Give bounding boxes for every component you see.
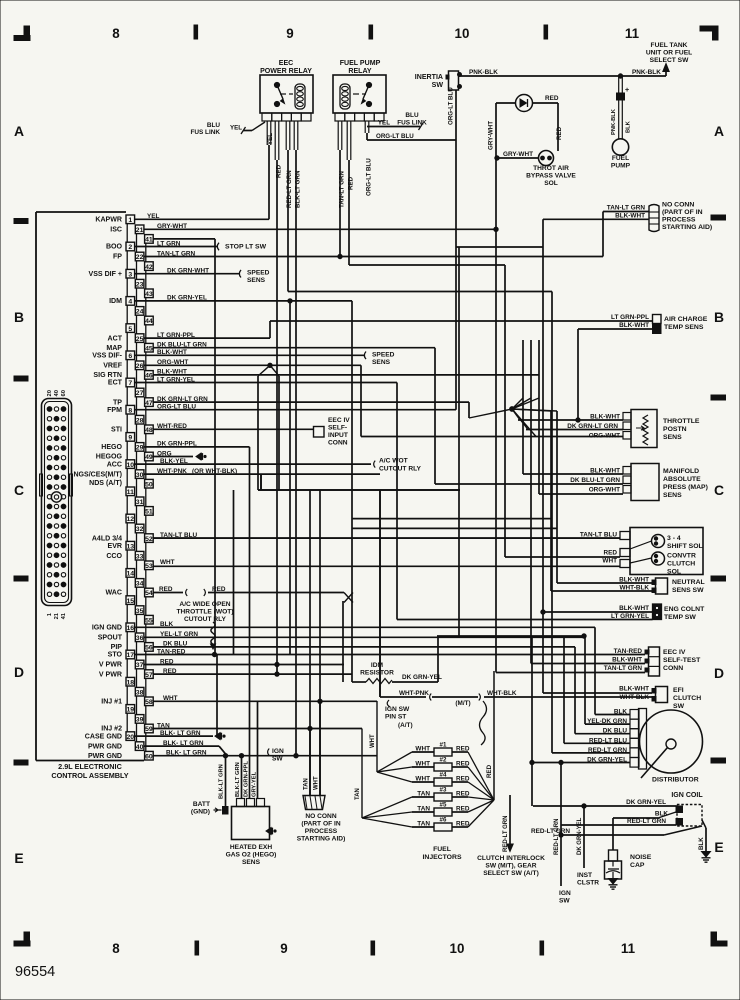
svg-text:WHT: WHT	[160, 559, 175, 566]
svg-text:SW (M/T), GEAR: SW (M/T), GEAR	[485, 863, 536, 870]
svg-text:WHT: WHT	[602, 558, 617, 565]
svg-text:SELECT SW: SELECT SW	[650, 57, 689, 64]
svg-text:C: C	[14, 482, 24, 498]
svg-text:PIP: PIP	[111, 644, 123, 651]
svg-text:FP: FP	[113, 254, 122, 261]
svg-text:THROTTLE (WOT): THROTTLE (WOT)	[176, 609, 233, 616]
svg-text:RELAY: RELAY	[348, 68, 372, 75]
svg-text:28: 28	[136, 417, 144, 424]
svg-text:BLU: BLU	[405, 112, 419, 119]
svg-text:NO CONN: NO CONN	[305, 813, 337, 820]
svg-text:TAN: TAN	[304, 778, 310, 790]
svg-text:9: 9	[286, 26, 293, 41]
svg-text:CUTOUT RLY: CUTOUT RLY	[379, 466, 422, 473]
svg-text:STI: STI	[111, 427, 122, 434]
svg-text:58: 58	[145, 699, 153, 706]
svg-text:EEC IV: EEC IV	[328, 417, 350, 424]
svg-text:FUEL TANK: FUEL TANK	[651, 42, 688, 49]
svg-text:RED-LT GRN: RED-LT GRN	[554, 819, 560, 855]
svg-text:32: 32	[136, 526, 144, 533]
svg-text:YEL: YEL	[230, 125, 242, 132]
svg-text:49: 49	[145, 454, 153, 461]
svg-text:SPEED: SPEED	[372, 351, 395, 358]
svg-text:57: 57	[145, 672, 153, 679]
svg-text:16: 16	[126, 625, 134, 632]
svg-text:4: 4	[128, 299, 132, 306]
svg-text:LT GRN-PPL: LT GRN-PPL	[611, 314, 649, 321]
svg-text:#5: #5	[440, 802, 447, 809]
svg-text:FUEL: FUEL	[612, 155, 629, 162]
svg-text:FUS LINK: FUS LINK	[397, 120, 427, 127]
svg-text:53: 53	[145, 563, 153, 570]
svg-text:STO: STO	[108, 652, 123, 659]
svg-text:CCO: CCO	[106, 553, 122, 560]
svg-text:(PART OF IN: (PART OF IN	[301, 821, 340, 828]
svg-text:9: 9	[280, 941, 287, 956]
svg-text:TAN-LT GRN: TAN-LT GRN	[604, 665, 643, 672]
svg-text:31: 31	[136, 499, 144, 506]
svg-text:RED-LT GRN: RED-LT GRN	[531, 828, 570, 835]
svg-text:27: 27	[136, 390, 144, 397]
svg-text:ISC: ISC	[110, 227, 122, 234]
svg-text:14: 14	[126, 571, 134, 578]
svg-text:RED: RED	[545, 95, 559, 102]
svg-text:THROTTLE: THROTTLE	[663, 418, 700, 425]
svg-text:21: 21	[54, 612, 60, 619]
svg-text:DISTRIBUTOR: DISTRIBUTOR	[652, 777, 699, 784]
svg-text:SPEED: SPEED	[247, 270, 270, 277]
svg-text:RED: RED	[556, 126, 563, 140]
svg-text:IGN GND: IGN GND	[92, 625, 122, 632]
svg-text:11: 11	[625, 26, 640, 41]
svg-text:26: 26	[136, 363, 144, 370]
svg-text:BLK-WHT: BLK-WHT	[619, 605, 649, 612]
svg-text:#2: #2	[440, 757, 447, 764]
svg-text:1: 1	[128, 217, 132, 224]
svg-text:SIG RTN: SIG RTN	[93, 372, 122, 379]
svg-text:EEC IV: EEC IV	[663, 649, 686, 656]
svg-text:INPUT: INPUT	[328, 432, 348, 439]
svg-text:60: 60	[145, 753, 153, 760]
svg-text:TP: TP	[113, 399, 122, 406]
svg-text:RED: RED	[348, 176, 355, 190]
svg-text:BLK-LT GRN: BLK-LT GRN	[295, 170, 302, 208]
svg-text:47: 47	[145, 400, 153, 407]
svg-text:15: 15	[126, 598, 134, 605]
svg-text:RED-LT GRN: RED-LT GRN	[286, 170, 293, 208]
svg-text:GAS O2 (HEGO): GAS O2 (HEGO)	[226, 852, 277, 859]
svg-text:IGN COIL: IGN COIL	[671, 792, 703, 799]
svg-text:40: 40	[54, 390, 60, 396]
svg-text:56: 56	[145, 645, 153, 652]
svg-text:WHT: WHT	[370, 734, 376, 748]
svg-text:22: 22	[136, 254, 144, 261]
svg-text:#6: #6	[440, 817, 447, 824]
svg-text:2: 2	[128, 244, 132, 251]
svg-text:DK GRN-YEL: DK GRN-YEL	[626, 799, 666, 806]
svg-text:BLU: BLU	[207, 122, 221, 129]
svg-text:11: 11	[621, 941, 636, 956]
svg-text:40: 40	[136, 744, 144, 751]
svg-text:DK BLU-LT GRN: DK BLU-LT GRN	[570, 477, 620, 484]
svg-text:25: 25	[136, 336, 144, 343]
svg-text:CONTROL ASSEMBLY: CONTROL ASSEMBLY	[51, 771, 128, 780]
svg-text:DK GRN-PPL: DK GRN-PPL	[244, 761, 250, 797]
svg-text:ABSOLUTE: ABSOLUTE	[663, 476, 701, 483]
svg-text:SW: SW	[673, 703, 685, 710]
svg-text:RED: RED	[486, 764, 493, 778]
svg-text:CLUTCH: CLUTCH	[673, 695, 701, 702]
svg-text:SOL: SOL	[544, 180, 558, 187]
svg-text:STARTING AID): STARTING AID)	[662, 224, 712, 231]
svg-text:STARTING AID): STARTING AID)	[297, 836, 346, 843]
svg-text:7: 7	[128, 380, 132, 387]
svg-text:BLK-WHT: BLK-WHT	[619, 322, 649, 329]
svg-text:6: 6	[128, 353, 132, 360]
svg-text:50: 50	[145, 481, 153, 488]
svg-text:SHIFT SOL: SHIFT SOL	[667, 543, 703, 550]
svg-text:WAC: WAC	[106, 590, 122, 597]
svg-text:V PWR: V PWR	[99, 671, 122, 678]
svg-text:NOISE: NOISE	[630, 854, 652, 861]
svg-text:FUEL PUMP: FUEL PUMP	[340, 60, 381, 67]
svg-text:19: 19	[126, 707, 134, 714]
svg-text:41: 41	[61, 612, 67, 619]
svg-text:KAPWR: KAPWR	[95, 217, 122, 224]
svg-text:42: 42	[145, 264, 153, 271]
svg-text:12: 12	[126, 516, 134, 523]
svg-text:SPOUT: SPOUT	[98, 635, 123, 642]
svg-text:PWR GND: PWR GND	[88, 743, 122, 750]
svg-text:5: 5	[128, 326, 132, 333]
svg-text:HEGO: HEGO	[101, 444, 122, 451]
svg-text:POWER RELAY: POWER RELAY	[260, 68, 312, 75]
svg-text:SW: SW	[559, 898, 570, 905]
svg-text:BLK-LT GRN: BLK-LT GRN	[219, 764, 225, 799]
svg-text:ACT: ACT	[108, 335, 123, 342]
svg-text:9: 9	[128, 435, 132, 442]
svg-text:VSS DIF +: VSS DIF +	[89, 271, 122, 278]
svg-text:RED-LT GRN: RED-LT GRN	[627, 818, 666, 825]
svg-text:BLK-WHT: BLK-WHT	[619, 686, 649, 693]
svg-text:96554: 96554	[15, 964, 55, 980]
svg-text:ORG-LT BLU: ORG-LT BLU	[448, 87, 455, 125]
svg-text:ORG-LT BLU: ORG-LT BLU	[376, 133, 414, 140]
svg-text:TEMP SENS: TEMP SENS	[664, 324, 704, 331]
svg-text:PNK-BLK: PNK-BLK	[611, 108, 617, 135]
svg-text:46: 46	[145, 373, 153, 380]
svg-text:PRESS (MAP): PRESS (MAP)	[663, 484, 708, 491]
svg-text:54: 54	[145, 590, 153, 597]
svg-text:10: 10	[455, 26, 470, 41]
svg-text:TAN-LT GRN: TAN-LT GRN	[339, 171, 346, 208]
svg-text:20: 20	[47, 390, 53, 396]
svg-text:21: 21	[136, 227, 144, 234]
svg-text:STOP LT SW: STOP LT SW	[225, 244, 267, 251]
svg-text:THROT AIR: THROT AIR	[533, 165, 569, 172]
svg-text:CAP: CAP	[630, 862, 645, 869]
svg-text:BLK-LT GRN: BLK-LT GRN	[235, 762, 241, 797]
svg-text:DK GRN-YEL: DK GRN-YEL	[577, 817, 583, 855]
svg-text:PNK-BLK: PNK-BLK	[632, 69, 661, 76]
svg-text:VREF: VREF	[103, 363, 122, 370]
svg-text:A: A	[14, 123, 24, 139]
svg-text:NDS (A/T): NDS (A/T)	[89, 480, 122, 487]
svg-text:TAN-LT GRN: TAN-LT GRN	[607, 205, 646, 212]
svg-text:A/C WIDE OPEN: A/C WIDE OPEN	[179, 601, 230, 608]
svg-text:20: 20	[126, 734, 134, 741]
svg-text:E: E	[714, 839, 723, 855]
svg-text:30: 30	[136, 472, 144, 479]
svg-text:PNK-BLK: PNK-BLK	[469, 69, 498, 76]
svg-text:11: 11	[127, 489, 134, 496]
svg-text:HEATED EXH: HEATED EXH	[230, 844, 272, 851]
svg-text:IDM: IDM	[371, 662, 384, 669]
svg-text:A4LD 3/4: A4LD 3/4	[92, 535, 122, 542]
svg-text:WHT-PNK: WHT-PNK	[399, 690, 429, 697]
svg-text:FPM: FPM	[107, 407, 122, 414]
svg-text:WHT: WHT	[314, 776, 320, 790]
svg-text:3 - 4: 3 - 4	[667, 535, 681, 542]
svg-text:2.9L ELECTRONIC: 2.9L ELECTRONIC	[58, 762, 122, 771]
svg-text:B: B	[14, 309, 24, 325]
svg-text:SENS: SENS	[663, 492, 682, 499]
svg-text:(M/T): (M/T)	[455, 700, 470, 707]
svg-text:#1: #1	[440, 742, 447, 749]
svg-text:CUTOUT RLY: CUTOUT RLY	[184, 616, 227, 623]
svg-text:CLUTCH INTERLOCK: CLUTCH INTERLOCK	[477, 855, 545, 862]
svg-text:BLK: BLK	[698, 837, 705, 850]
svg-text:BLK: BLK	[626, 120, 632, 133]
svg-text:MANIFOLD: MANIFOLD	[663, 468, 699, 475]
svg-text:SELF-: SELF-	[328, 425, 347, 432]
svg-text:D: D	[714, 665, 724, 681]
svg-text:UNIT OR FUEL: UNIT OR FUEL	[646, 50, 692, 57]
svg-text:41: 41	[145, 237, 153, 244]
svg-text:RED-LT GRN: RED-LT GRN	[503, 816, 509, 852]
svg-text:NEUTRAL: NEUTRAL	[672, 579, 705, 586]
svg-text:YEL: YEL	[267, 133, 274, 145]
svg-text:8: 8	[112, 26, 120, 41]
svg-text:YEL: YEL	[378, 120, 390, 127]
svg-text:18: 18	[126, 679, 134, 686]
svg-text:E: E	[14, 850, 23, 866]
svg-text:SOL: SOL	[667, 569, 681, 576]
svg-text:INST: INST	[577, 872, 592, 879]
svg-text:IGN SW: IGN SW	[385, 706, 410, 713]
svg-text:TAN: TAN	[355, 788, 361, 800]
svg-text:#3: #3	[440, 787, 447, 794]
svg-text:PIN ST: PIN ST	[385, 714, 406, 721]
svg-text:SENS: SENS	[242, 859, 261, 866]
svg-text:WHT-BLK: WHT-BLK	[487, 690, 517, 697]
svg-text:GRY-YEL: GRY-YEL	[252, 771, 258, 797]
svg-text:ORG-WHT: ORG-WHT	[589, 487, 620, 494]
svg-text:IGN: IGN	[559, 890, 571, 897]
svg-text:SENS: SENS	[663, 434, 682, 441]
svg-text:ACC: ACC	[107, 461, 122, 468]
svg-text:55: 55	[145, 617, 153, 624]
svg-text:35: 35	[136, 608, 144, 615]
svg-text:PWR GND: PWR GND	[88, 753, 122, 760]
svg-text:37: 37	[136, 662, 144, 669]
svg-text:33: 33	[136, 553, 144, 560]
svg-text:TAN-RED: TAN-RED	[157, 648, 186, 655]
svg-text:SENS SW: SENS SW	[672, 587, 704, 594]
svg-text:BATT: BATT	[193, 801, 210, 808]
svg-text:CLSTR: CLSTR	[577, 880, 599, 887]
svg-text:10: 10	[450, 941, 465, 956]
svg-text:GRY-WHT: GRY-WHT	[488, 121, 495, 150]
svg-text:36: 36	[136, 635, 144, 642]
svg-text:17: 17	[126, 652, 134, 659]
svg-text:DK GRN-YEL: DK GRN-YEL	[402, 674, 442, 681]
svg-text:CONN: CONN	[328, 440, 348, 447]
svg-text:34: 34	[136, 581, 144, 588]
svg-text:INJECTORS: INJECTORS	[422, 854, 461, 861]
svg-text:FUEL: FUEL	[433, 846, 451, 853]
svg-text:EEC: EEC	[279, 60, 294, 67]
svg-text:SELF-TEST: SELF-TEST	[663, 657, 701, 664]
svg-text:RED: RED	[276, 164, 283, 178]
svg-text:FUS LINK: FUS LINK	[190, 129, 220, 136]
svg-text:IDM: IDM	[109, 298, 122, 305]
svg-text:RED: RED	[603, 550, 617, 557]
svg-text:ENG COLNT: ENG COLNT	[664, 606, 705, 613]
svg-text:INJ #1: INJ #1	[101, 699, 122, 706]
svg-text:C: C	[714, 482, 724, 498]
svg-text:45: 45	[145, 345, 153, 352]
svg-text:38: 38	[136, 689, 144, 696]
svg-text:A: A	[714, 123, 724, 139]
svg-text:CONN: CONN	[663, 665, 683, 672]
svg-text:13: 13	[126, 543, 134, 550]
svg-text:23: 23	[136, 281, 144, 288]
svg-text:ORG-LT BLU: ORG-LT BLU	[366, 158, 373, 196]
svg-text:INERTIA: INERTIA	[415, 74, 443, 81]
svg-text:60: 60	[61, 390, 67, 396]
svg-text:D: D	[14, 664, 24, 680]
svg-text:(GND): (GND)	[191, 809, 210, 816]
svg-text:EVR: EVR	[108, 543, 123, 550]
svg-text:INJ #2: INJ #2	[101, 726, 122, 733]
svg-text:CASE GND: CASE GND	[85, 733, 122, 740]
svg-text:AIR CHARGE: AIR CHARGE	[664, 316, 708, 323]
svg-text:GRY-WHT: GRY-WHT	[503, 151, 533, 158]
svg-text:V PWR: V PWR	[99, 662, 122, 669]
svg-text:CLUTCH: CLUTCH	[667, 561, 695, 568]
svg-text:RESISTOR: RESISTOR	[360, 670, 394, 677]
svg-text:ECT: ECT	[108, 380, 123, 387]
svg-text:NGS/CES(M/T): NGS/CES(M/T)	[73, 471, 122, 478]
svg-text:8: 8	[112, 941, 120, 956]
svg-text:48: 48	[145, 427, 153, 434]
svg-text:BYPASS VALVE: BYPASS VALVE	[526, 173, 576, 180]
svg-text:VSS DIF-: VSS DIF-	[92, 353, 122, 360]
svg-text:+: +	[625, 85, 630, 94]
svg-text:#4: #4	[440, 772, 447, 779]
svg-text:10: 10	[126, 462, 134, 469]
svg-text:MAP: MAP	[106, 345, 122, 352]
svg-text:B: B	[714, 309, 724, 325]
svg-text:39: 39	[136, 717, 144, 724]
svg-text:24: 24	[136, 309, 144, 316]
svg-text:8: 8	[128, 407, 132, 414]
svg-text:59: 59	[145, 726, 153, 733]
svg-text:NO CONN: NO CONN	[662, 202, 694, 209]
svg-text:44: 44	[145, 318, 153, 325]
svg-text:PUMP: PUMP	[611, 163, 631, 170]
svg-text:CONVTR: CONVTR	[667, 553, 696, 560]
svg-text:SENS: SENS	[247, 277, 266, 284]
svg-text:51: 51	[145, 509, 153, 516]
svg-text:A/C WOT: A/C WOT	[379, 458, 408, 465]
svg-text:SW: SW	[432, 82, 444, 89]
svg-text:TEMP SW: TEMP SW	[664, 614, 696, 621]
svg-text:EFI: EFI	[673, 687, 684, 694]
svg-text:(PART OF IN: (PART OF IN	[662, 209, 703, 216]
svg-text:BOO: BOO	[106, 244, 123, 251]
svg-text:52: 52	[145, 536, 153, 543]
svg-text:29: 29	[136, 445, 144, 452]
svg-text:SELECT SW (A/T): SELECT SW (A/T)	[483, 870, 539, 877]
svg-text:BLK-WHT: BLK-WHT	[612, 657, 642, 664]
svg-text:POSTN: POSTN	[663, 426, 687, 433]
svg-text:43: 43	[145, 291, 153, 298]
svg-text:PROCESS: PROCESS	[662, 217, 696, 224]
svg-text:(A/T): (A/T)	[398, 722, 413, 729]
svg-text:SENS: SENS	[372, 359, 391, 366]
svg-text:3: 3	[128, 271, 132, 278]
svg-text:IGN: IGN	[272, 748, 284, 755]
svg-text:PROCESS: PROCESS	[305, 828, 338, 835]
svg-text:HEGOG: HEGOG	[96, 454, 123, 461]
